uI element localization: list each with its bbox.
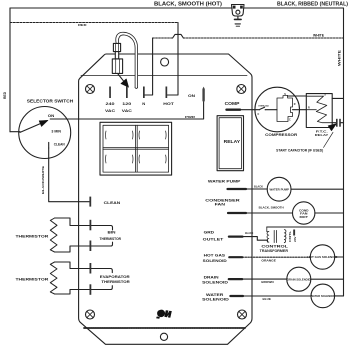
WATER lug — [230, 295, 243, 297]
svg-text:CONTROL: CONTROL — [261, 244, 288, 248]
terminal evap thermistor B — [90, 284, 92, 295]
svg-text:240: 240 — [106, 102, 115, 106]
wire: left drop to selector switch — [9, 8, 11, 132]
terminal HOT — [166, 87, 168, 99]
bin thermistor leads — [55, 218, 90, 226]
hot gas solenoid — [310, 245, 334, 269]
relay — [217, 116, 243, 171]
fuse holder neck — [115, 52, 118, 59]
svg-text:THERMISTOR: THERMISTOR — [16, 278, 49, 282]
wire GRD outlet to transformer — [243, 237, 268, 241]
svg-text:BLACK: BLACK — [254, 185, 263, 189]
svg-text:CNTL: CNTL — [289, 230, 292, 242]
svg-text:CLEAN: CLEAN — [54, 142, 65, 146]
svg-text:BLACK: BLACK — [245, 231, 253, 235]
overload protector — [258, 104, 278, 116]
condenser fan motor — [293, 202, 315, 224]
svg-text:DRAIN SOLENOID: DRAIN SOLENOID — [287, 277, 311, 281]
svg-text:SOLENOID: SOLENOID — [202, 279, 228, 284]
svg-text:ON: ON — [48, 114, 55, 118]
control board outline — [79, 54, 252, 344]
wire to condenser fan — [246, 212, 293, 214]
terminal: CLEAN input — [89, 197, 91, 207]
bottom flange hole — [160, 333, 167, 340]
evaporator thermistor leads — [55, 262, 90, 269]
svg-text:BROWN: BROWN — [261, 280, 273, 284]
wire to water solenoid — [243, 295, 311, 297]
wire: right neutral/hot bus — [343, 8, 345, 296]
wire: drop to N terminal — [145, 38, 153, 95]
ON terminal pin on board — [202, 87, 204, 102]
wire: drop to HOT terminal — [167, 23, 178, 96]
wire: white dashed neutral line with grommet bump — [153, 37, 173, 39]
DRAIN lug — [229, 278, 242, 280]
terminal 120 VAC — [126, 87, 128, 99]
power plug with ground pin — [232, 5, 245, 27]
terminal evap thermistor A — [90, 263, 92, 274]
svg-text:ORANGE: ORANGE — [261, 259, 276, 263]
wire compressor S to PTC relay — [288, 95, 307, 97]
wire into compressor (common) — [255, 109, 259, 111]
svg-text:120: 120 — [122, 102, 131, 106]
wire water solenoid to bus — [335, 295, 344, 297]
wire: red dashed feed from switch drop to HOT input — [10, 22, 178, 24]
wire: CLEAN contact to board — [49, 148, 89, 202]
wire COMP to compressor — [240, 109, 255, 111]
svg-text:RELAY: RELAY — [315, 133, 329, 137]
wire capacitor to bus — [341, 122, 344, 124]
svg-text:START CAPACITOR (IF USED): START CAPACITOR (IF USED) — [276, 149, 323, 153]
bin thermistor R1 — [50, 218, 57, 252]
svg-text:SOLENOID: SOLENOID — [203, 258, 227, 263]
svg-text:BLUE: BLUE — [263, 297, 272, 301]
evap thermistor bracket wires (board) — [91, 269, 112, 273]
UL recognized component mark — [156, 310, 172, 319]
terminal bin thermistor B — [90, 241, 92, 252]
mounting screw bottom-left — [86, 310, 95, 319]
svg-text:BLACK, SMOOTH (HOT): BLACK, SMOOTH (HOT) — [154, 2, 222, 8]
svg-text:RED: RED — [78, 23, 88, 27]
svg-text:3 MIN: 3 MIN — [51, 129, 61, 133]
wire drain solenoid to bus — [311, 278, 344, 280]
svg-text:HOT: HOT — [163, 102, 175, 106]
transformer T1 — [267, 227, 286, 243]
svg-text:SELECTOR SWITCH: SELECTOR SWITCH — [27, 98, 74, 103]
svg-text:24V: 24V — [294, 236, 297, 242]
wire condenser fan to bus — [315, 212, 344, 214]
wire PTC bottom to run capacitor — [332, 122, 336, 124]
svg-text:RELAY: RELAY — [224, 139, 241, 144]
svg-text:WATER SOLENOID: WATER SOLENOID — [311, 294, 336, 298]
compressor U1 — [255, 87, 300, 132]
svg-text:OVERLOAD: OVERLOAD — [258, 104, 269, 107]
mounting screw top-right — [237, 85, 246, 94]
svg-text:R: R — [308, 107, 310, 110]
svg-text:FAN: FAN — [215, 202, 225, 207]
arrow from fuse to 120 VAC terminal — [118, 73, 124, 81]
COMP terminal lug — [227, 108, 241, 110]
water inlet solenoid — [311, 284, 335, 308]
svg-text:THERMISTOR: THERMISTOR — [16, 235, 49, 239]
terminal 240 VAC — [109, 87, 111, 99]
svg-text:WHITE: WHITE — [338, 50, 342, 66]
compressor motor windings — [277, 93, 296, 122]
svg-text:WATER PUMP: WATER PUMP — [208, 179, 241, 184]
GRD OUTLET lug — [229, 236, 243, 238]
svg-text:C: C — [258, 113, 260, 116]
jumper wire loop — [117, 34, 136, 88]
svg-text:BIN: BIN — [108, 231, 117, 235]
wire to drain solenoid — [242, 278, 287, 280]
svg-text:VAC: VAC — [105, 109, 116, 113]
svg-text:C: C — [289, 118, 291, 121]
CLEAN contact tick — [48, 142, 50, 148]
fuse holder body — [112, 59, 122, 74]
dashed wire to hot gas solenoid — [242, 256, 310, 258]
svg-text:OUTLET: OUTLET — [203, 237, 224, 242]
wire water pump to bus — [291, 188, 344, 190]
svg-text:VAC: VAC — [122, 109, 133, 113]
HOT GAS lug — [229, 256, 242, 258]
wire hot gas solenoid to bus — [335, 256, 344, 258]
svg-text:ON: ON — [188, 94, 196, 98]
display module (2x2) — [100, 122, 172, 175]
svg-text:EVAPORATOR: EVAPORATOR — [100, 275, 131, 279]
CONDENSER FAN lug — [228, 212, 246, 214]
svg-text:THERMISTOR: THERMISTOR — [101, 280, 130, 284]
svg-text:COMPRESSOR: COMPRESSOR — [265, 132, 297, 137]
svg-text:MOT: MOT — [300, 215, 309, 219]
wire compressor R to PTC relay — [293, 109, 307, 111]
svg-text:WHITE: WHITE — [313, 33, 324, 37]
svg-text:SOLENOID: SOLENOID — [202, 297, 229, 302]
svg-text:WATER PUMP: WATER PUMP — [270, 188, 290, 192]
water pump motor — [267, 177, 291, 201]
svg-text:N: N — [142, 102, 145, 106]
wire to water pump — [246, 188, 267, 190]
svg-text:PWR: PWR — [185, 115, 195, 119]
wire transformer feed to bus — [267, 226, 344, 228]
board top flange inner line — [81, 75, 247, 77]
leader line from note to capacitor — [324, 132, 334, 147]
mounting screw bottom-right — [238, 310, 247, 319]
fuse holder crimp — [113, 43, 120, 51]
svg-text:RED: RED — [3, 91, 7, 99]
svg-text:R: R — [294, 103, 296, 106]
WATER PUMP lug — [228, 188, 247, 190]
svg-text:BLACK/WHITE: BLACK/WHITE — [41, 166, 45, 194]
wire: power cord hot line (top) — [10, 7, 344, 9]
drain solenoid — [287, 267, 311, 291]
svg-text:COMP: COMP — [225, 101, 240, 106]
svg-text:HOT GAS SOLENOID: HOT GAS SOLENOID — [308, 255, 339, 259]
top flange hole — [161, 58, 169, 66]
evaporator thermistor R2 — [50, 262, 57, 294]
ground symbol — [235, 18, 242, 20]
selector switch body — [19, 107, 71, 159]
wire: ON contact to board ON pin — [50, 102, 203, 119]
arrow pointing to capacitor — [328, 124, 336, 131]
selector switch wiper arrow — [20, 123, 42, 132]
mounting screw top-left — [86, 85, 95, 94]
wire PTC top to bus — [332, 97, 343, 99]
run capacitor C1 — [336, 119, 338, 127]
board bottom inner hatched line — [84, 327, 245, 329]
terminal N — [143, 87, 145, 99]
svg-text:GRD: GRD — [204, 230, 215, 235]
terminal bin thermistor A — [90, 220, 92, 231]
wire into selector switch — [10, 131, 20, 133]
PTC start relay — [306, 94, 332, 128]
svg-text:BLACK, RIBBED (NEUTRAL): BLACK, RIBBED (NEUTRAL) — [277, 1, 348, 7]
bin thermistor bracket wires (board) — [91, 226, 112, 230]
svg-text:BLACK, SMOOTH: BLACK, SMOOTH — [259, 205, 284, 209]
svg-text:CLEAN: CLEAN — [104, 201, 121, 205]
svg-text:TRANSFORMER: TRANSFORMER — [260, 249, 289, 253]
svg-text:THERMISTOR: THERMISTOR — [100, 237, 122, 241]
